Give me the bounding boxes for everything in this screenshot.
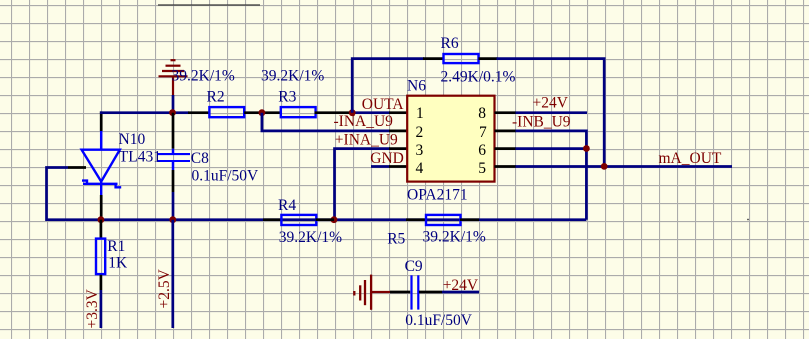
junction feedback node — [601, 163, 608, 170]
resistor R2 — [209, 107, 244, 117]
svg-text:TL431: TL431 — [119, 149, 161, 166]
svg-text:1: 1 — [416, 105, 424, 122]
capacitor C8 — [157, 154, 190, 161]
junction OUTA node — [349, 109, 356, 116]
pin C9.2 — [419, 291, 442, 294]
svg-text:+24V: +24V — [533, 95, 569, 112]
pin U pin8 — [495, 111, 517, 114]
svg-text:OUTA: OUTA — [362, 96, 405, 113]
svg-text:3: 3 — [416, 142, 424, 159]
pin R1.1 — [100, 220, 103, 238]
ground GND (earth symbol above top rail) — [159, 60, 188, 95]
svg-text:N6: N6 — [407, 78, 426, 95]
svg-text:-INB_U9: -INB_U9 — [512, 114, 571, 131]
junction anode node — [98, 216, 105, 223]
svg-text:+24V: +24V — [443, 277, 479, 294]
wire C8 top pin (black) — [172, 113, 175, 149]
wire C8 bottom pin (black) — [172, 170, 175, 192]
pin N10 cathode (blue part) — [100, 131, 103, 150]
pin C8 bottom (blue) — [172, 162, 175, 171]
svg-text:R1: R1 — [107, 238, 125, 255]
wire feedback up from OUTA node — [352, 59, 424, 113]
pin R2.1 — [188, 111, 209, 114]
junction 2.5V node — [169, 216, 176, 223]
pin U pin2 — [389, 130, 407, 133]
svg-text:C9: C9 — [405, 258, 423, 275]
wire ground stem to rail — [172, 95, 175, 113]
pin U pin4 — [389, 165, 407, 168]
wire pin6 to -INB vertical — [516, 147, 587, 150]
junction R2-R3 node — [259, 109, 266, 116]
wire -INA from node down and right to pin2 — [262, 113, 390, 131]
wire cathode corner to rail — [100, 111, 103, 131]
svg-text:R2: R2 — [207, 89, 225, 106]
ground (earth symbol at C9, pointing left) — [354, 275, 390, 310]
svg-text:R4: R4 — [278, 197, 296, 214]
pin U pin7 — [495, 130, 517, 133]
pin U pin3 — [389, 147, 407, 150]
svg-text:R3: R3 — [278, 89, 296, 106]
wire pin5 to mA_OUT — [516, 165, 733, 168]
wire +24V stub — [516, 111, 588, 114]
svg-text:5: 5 — [478, 160, 486, 177]
resistor R3 — [281, 107, 316, 117]
resistor R4 — [281, 215, 316, 225]
svg-text:0.1uF/50V: 0.1uF/50V — [405, 312, 473, 329]
svg-text:R6: R6 — [441, 35, 459, 52]
pin C8 top (blue) — [172, 149, 175, 154]
svg-text:1K: 1K — [108, 255, 128, 272]
pin R2.2 / node wire / pin R3.1 — [244, 111, 281, 114]
pin U pin1 — [389, 111, 407, 114]
pin R3.2 wire to OUTA node — [315, 111, 353, 114]
pin N10 anode — [100, 195, 103, 220]
svg-text:+3.3V: +3.3V — [84, 288, 101, 328]
svg-text:2: 2 — [416, 124, 424, 141]
svg-text:39.2K/1%: 39.2K/1% — [279, 229, 342, 246]
pin R4.2 — [316, 218, 335, 221]
pin U pin6 — [495, 147, 517, 150]
wire C9 to +24V — [442, 291, 479, 294]
wire to +2.5V — [171, 220, 174, 328]
wire OUTA node to opamp pin1 — [352, 111, 390, 114]
pin C9.1 — [390, 291, 410, 294]
resistor R6 — [444, 54, 479, 63]
svg-text:GND: GND — [370, 150, 404, 167]
wire -INB down to bottom rail — [516, 131, 587, 220]
wire top rail — [100, 111, 189, 114]
wire C8 to bottom rail — [172, 192, 175, 220]
svg-text:4: 4 — [416, 160, 424, 177]
svg-text:+INA_U9: +INA_U9 — [335, 132, 398, 149]
wire ref loop and bottom rail — [47, 168, 587, 220]
junction +INA rail node — [331, 216, 338, 223]
svg-text:6: 6 — [478, 142, 486, 159]
resistor R5 — [426, 215, 461, 225]
wire to +3.3V — [100, 290, 103, 328]
svg-text:39.2K/1%: 39.2K/1% — [423, 228, 486, 245]
wire +INA from rail up to pin3 — [335, 149, 391, 220]
resistor R1 — [96, 239, 105, 275]
shunt reference N10 TL431 — [82, 150, 122, 195]
svg-text:OPA2171: OPA2171 — [407, 187, 468, 204]
wire (cut-off circuit at top edge) — [158, 4, 260, 6]
svg-text:mA_OUT: mA_OUT — [659, 150, 722, 167]
pin R6.2 — [479, 57, 498, 60]
capacitor C9 — [412, 275, 419, 309]
svg-text:C8: C8 — [191, 150, 209, 167]
svg-text:0.1uF/50V: 0.1uF/50V — [192, 168, 260, 185]
pin N10 ref — [68, 166, 86, 169]
junction pin6 node — [583, 145, 590, 152]
svg-text:R5: R5 — [387, 230, 405, 247]
stray dot artifact — [747, 219, 749, 221]
svg-text:+2.5V: +2.5V — [156, 268, 173, 308]
pin R1.2 — [100, 275, 103, 290]
svg-text:8: 8 — [478, 105, 486, 122]
wire GND stub pin4 — [371, 165, 390, 168]
pin R5.1 — [406, 218, 427, 221]
wire feedback down to pin5 node — [497, 59, 605, 167]
pin U pin5 — [495, 165, 517, 168]
pin R6.1 — [423, 57, 445, 60]
svg-text:N10: N10 — [119, 131, 146, 148]
svg-text:-INA_U9: -INA_U9 — [334, 113, 394, 130]
svg-text:7: 7 — [479, 124, 487, 141]
svg-text:39.2K/1%: 39.2K/1% — [172, 67, 235, 84]
svg-text:2.49K/0.1%: 2.49K/0.1% — [441, 68, 516, 85]
junction ground/C8 node — [169, 109, 176, 116]
op-amp N6 OPA2171 — [407, 96, 494, 182]
svg-text:39.2K/1%: 39.2K/1% — [261, 68, 324, 85]
pin R4.1 — [263, 218, 282, 221]
pin R5.2 — [460, 218, 479, 221]
